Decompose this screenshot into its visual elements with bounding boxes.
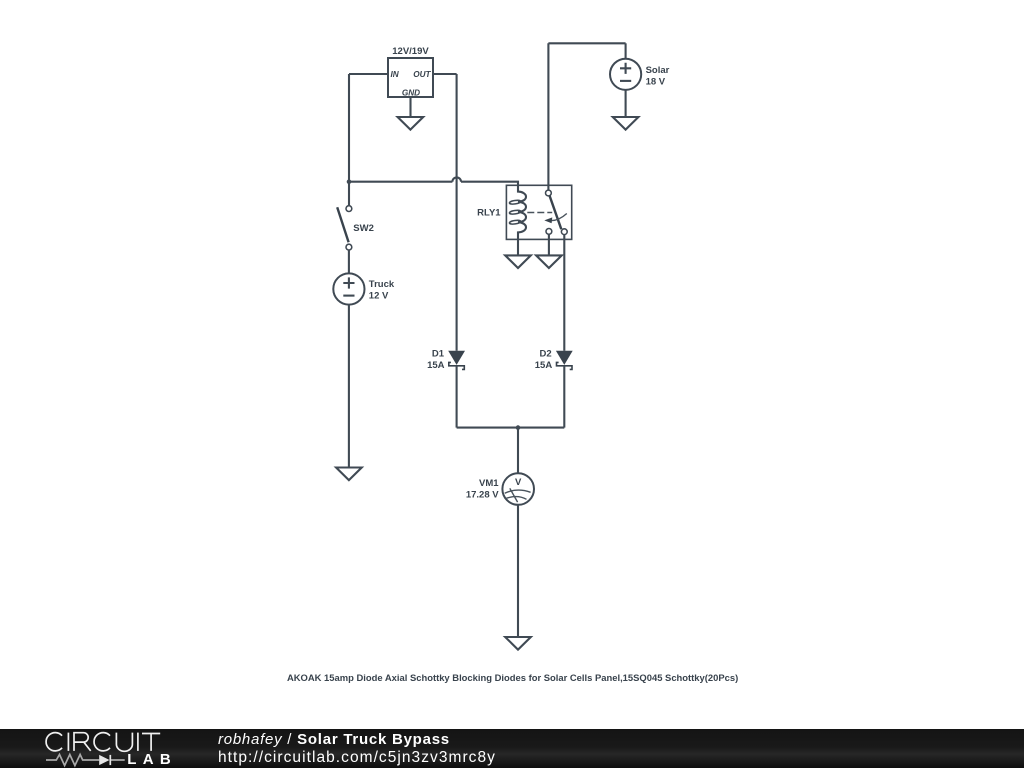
- wire top rail to solar: [548, 42, 625, 44]
- wire GND pin of converter: [409, 97, 411, 117]
- source circle: [333, 273, 364, 304]
- svg-text:GND: GND: [402, 88, 420, 97]
- wire node B down to voltmeter: [517, 428, 519, 474]
- wire node A to hop: [349, 181, 452, 183]
- svg-text:RLY1: RLY1: [477, 208, 501, 219]
- actuation arrow: [552, 214, 567, 221]
- wire stub to common contact: [547, 185, 549, 190]
- footer bar: [0, 729, 1024, 768]
- ground below truck: [336, 468, 362, 481]
- CircuitLab logo: [0, 729, 200, 768]
- switch SW2: [337, 206, 374, 250]
- wire left vertical down to node A: [348, 74, 350, 182]
- minus sign: [343, 295, 354, 297]
- voltage source Truck 12V: [333, 273, 395, 304]
- wire relay common pin to ground: [548, 234, 550, 255]
- wire relay NO pin down to D2: [563, 235, 565, 351]
- wire bottom rail: [457, 427, 565, 429]
- contact NC (bottom left): [546, 229, 552, 235]
- wire D1 to bottom rail: [456, 366, 458, 428]
- switch lever: [337, 207, 348, 242]
- ground below converter: [398, 117, 424, 130]
- switch lever: [550, 196, 562, 229]
- wire truck source to ground: [348, 305, 350, 468]
- wire OUT pin to right: [433, 73, 457, 75]
- wire hop to relay coil: [461, 182, 518, 186]
- schottky cathode bar: [557, 362, 573, 369]
- wire rail down to solar source: [625, 43, 627, 58]
- svg-text:15A: 15A: [427, 360, 445, 371]
- wire voltmeter to ground: [517, 505, 519, 637]
- diode D2: [535, 348, 573, 371]
- ground below relay coil: [505, 255, 531, 268]
- minus sign: [620, 80, 631, 82]
- ground below voltmeter: [505, 637, 531, 650]
- diode triangle: [448, 351, 465, 365]
- converter body: [388, 58, 433, 97]
- ground below solar: [613, 117, 639, 130]
- svg-text:OUT: OUT: [413, 70, 431, 79]
- meter needle: [510, 488, 518, 502]
- contact circle bottom: [346, 244, 352, 250]
- wire solar to ground: [625, 90, 627, 117]
- meter gauge arcs: [505, 490, 531, 493]
- DC-DC converter 12V/19V: [388, 46, 433, 98]
- svg-text:V: V: [515, 477, 522, 488]
- svg-text:Solar: Solar: [646, 65, 670, 76]
- svg-text:17.28 V: 17.28 V: [466, 490, 499, 501]
- ground below relay common: [536, 255, 562, 268]
- plus sign: [620, 63, 631, 74]
- diode D1: [427, 348, 465, 371]
- relay RLY1: [477, 185, 572, 239]
- diode triangle: [556, 351, 573, 365]
- svg-text:D2: D2: [540, 348, 552, 359]
- contact NO (bottom right): [561, 229, 567, 235]
- voltmeter VM1: [466, 473, 534, 505]
- wire node A down to SW2: [348, 182, 350, 206]
- svg-text:12 V: 12 V: [369, 290, 389, 301]
- plus sign: [343, 277, 354, 288]
- voltage source Solar 18V: [610, 59, 670, 90]
- node A junction dot: [347, 179, 352, 184]
- wire relay top pin up to rail: [547, 43, 549, 185]
- contact common (top): [546, 190, 552, 196]
- relay body: [506, 185, 571, 239]
- wire OUT vertical down to D1: [456, 74, 458, 351]
- svg-text:VM1: VM1: [479, 478, 499, 489]
- svg-text:D1: D1: [432, 348, 445, 359]
- wire IN pin to left: [349, 73, 388, 75]
- svg-text:Truck: Truck: [369, 279, 395, 290]
- schottky cathode bar: [449, 362, 465, 369]
- svg-text:15A: 15A: [535, 360, 553, 371]
- svg-text:SW2: SW2: [353, 223, 374, 234]
- svg-text:AKOAK 15amp Diode Axial Schott: AKOAK 15amp Diode Axial Schottky Blockin…: [287, 672, 738, 683]
- wire SW2 to truck source: [348, 250, 350, 273]
- wire relay coil pin to ground: [517, 239, 519, 255]
- svg-text:18 V: 18 V: [646, 76, 666, 87]
- source circle: [610, 59, 641, 90]
- svg-text:LAB: LAB: [127, 750, 177, 767]
- svg-text:12V/19V: 12V/19V: [392, 46, 429, 57]
- meter circle: [502, 473, 534, 505]
- contact circle top: [346, 206, 352, 212]
- relay coil: [518, 185, 526, 239]
- node B junction dot: [516, 425, 521, 430]
- wire D2 to bottom rail: [563, 366, 565, 428]
- wire hop over vertical: [452, 177, 461, 181]
- actuation dashed link: [527, 212, 552, 214]
- svg-text:IN: IN: [391, 70, 400, 79]
